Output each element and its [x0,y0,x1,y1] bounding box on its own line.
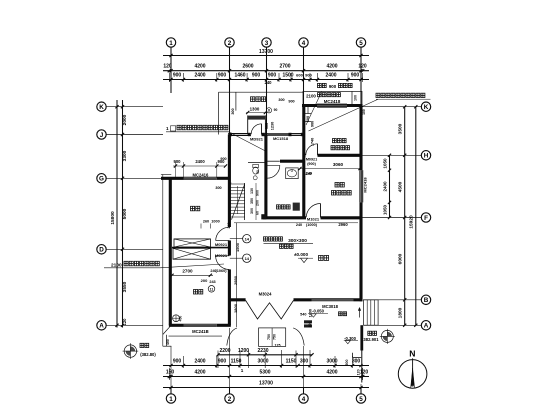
svg-text:1: 1 [166,126,169,131]
svg-text:2400: 2400 [325,73,336,79]
svg-text:150: 150 [166,369,175,375]
bottom-left eave corner miter [163,326,171,334]
wall on grid 2 full height with two door gaps [228,135,231,228]
svg-text:260: 260 [203,219,209,223]
svg-text:1050: 1050 [383,204,388,215]
wall on grid H kitchen divider with door M0921 [304,154,306,157]
wall on grid 4 from K down to F with door gap [302,107,305,218]
svg-text:300: 300 [250,208,254,214]
svg-text:14: 14 [245,256,250,261]
door MD921 leaf and arc [261,124,263,135]
wall on grid 3 from J to F [264,135,267,218]
svg-text:1230: 1230 [271,122,275,130]
bedroom south wall on grid A with window MC241B [169,324,184,327]
stair cut diagonal [232,184,245,219]
svg-text:D: D [99,247,104,254]
bottom total dim line 13700 [163,387,369,389]
svg-text:2230: 2230 [257,348,268,354]
svg-text:900: 900 [329,84,337,89]
svg-text:H: H [424,153,429,160]
flue second line [280,244,294,248]
svg-text:4500: 4500 [398,181,404,192]
svg-text:240: 240 [306,172,312,176]
svg-text:2100: 2100 [111,262,122,268]
svg-text:900: 900 [173,73,182,79]
right outer dim line 15920 [415,107,417,326]
svg-text:120: 120 [122,318,127,326]
east wall on grid 5 [359,104,362,170]
svg-text:3550: 3550 [122,281,128,292]
bottom grid bubbles and stems [166,394,175,403]
svg-text:A: A [99,323,104,330]
svg-text:1: 1 [241,368,244,373]
svg-text:300: 300 [352,359,361,365]
south eaves line below bedroom [169,335,223,337]
svg-text:1000: 1000 [211,219,219,223]
svg-text:900: 900 [311,121,315,127]
bathroom2 washbasin [286,168,299,179]
svg-text:MD921: MD921 [250,137,264,142]
svg-text:900: 900 [218,359,227,365]
svg-text:500: 500 [345,360,349,366]
east wall lower segment [359,202,362,301]
svg-text:750: 750 [267,334,271,340]
bath2 door arc [267,160,280,162]
boundary wall below A right [360,325,363,350]
svg-text:F: F [424,215,428,222]
svg-text:(1000): (1000) [306,223,318,227]
kitchen counter stub lines [304,113,311,115]
svg-text:200: 200 [256,200,260,206]
svg-text:3300: 3300 [122,150,128,161]
svg-text:120: 120 [357,369,361,375]
room label bedroom living [335,183,344,188]
svg-text:G: G [99,176,104,183]
svg-text:13700: 13700 [259,49,273,55]
svg-text:50: 50 [256,170,260,174]
svg-text:1200: 1200 [238,348,249,354]
svg-text:90: 90 [274,108,278,112]
bottom partial row extension lines [217,351,219,369]
svg-text:900: 900 [174,159,182,164]
svg-text:2100: 2100 [306,94,316,99]
svg-text:1150: 1150 [286,359,297,365]
svg-text:300: 300 [278,98,284,102]
svg-text:M1021: M1021 [307,217,320,222]
svg-text:M3024: M3024 [259,292,272,297]
svg-text:1050: 1050 [383,158,388,169]
right grid bubbles with leaders [421,102,430,111]
svg-text:4200: 4200 [326,64,337,70]
svg-text:2700: 2700 [182,268,193,273]
svg-text:8: 8 [268,109,270,113]
svg-text:1: 1 [169,40,173,47]
svg-text:5000: 5000 [122,208,128,219]
svg-text:15920: 15920 [409,215,415,229]
benchmark left with cross circle [124,345,136,357]
water counter top line [219,91,304,93]
top dimension line bays [163,70,369,72]
svg-text:450: 450 [179,316,183,322]
svg-text:120: 120 [163,64,172,70]
kitchen interior dim 3060 [300,168,360,170]
stair going-up arrow line [237,186,239,214]
bedroom door M0921 upper arc [216,227,230,240]
step label and arrow [339,312,347,316]
folding door M3024 zigzag [246,300,294,319]
corridor wall grid2 extension B to A [228,300,230,326]
svg-text:900: 900 [173,359,182,365]
living room label [319,256,329,261]
right inner window dim chain [389,155,391,217]
east wall window MC2418 vertical [359,170,361,202]
bathroom1 fixtures toilet [253,164,259,167]
svg-text:3060: 3060 [333,162,344,167]
top note reserved 900 door opening [318,83,327,87]
stairs between grid2 and grid3 [230,184,244,217]
svg-text:900: 900 [218,73,227,79]
svg-text:A: A [424,323,429,330]
svg-text:2000: 2000 [122,114,128,125]
svg-text:240: 240 [265,80,273,85]
right dim chain [404,107,406,326]
kitchen north wall on grid K with window MC2418 [302,104,362,107]
svg-text:5300: 5300 [259,369,270,375]
bedroom north wall on grid G with window MC2416 [161,177,184,180]
svg-text:2400: 2400 [195,159,205,164]
svg-text:1300: 1300 [250,107,260,112]
floor drain circle in bedroom [173,315,180,322]
svg-text:243: 243 [209,280,215,284]
bottom dim line bays [163,376,369,378]
svg-text:2400: 2400 [383,181,388,192]
bath north wall on grid J with door MD921 and window MC1518 [228,133,251,135]
callout circles living room [243,235,251,243]
svg-text:900: 900 [268,73,277,79]
svg-text:3000: 3000 [257,359,268,365]
svg-text:2950: 2950 [233,275,238,285]
svg-text:2600: 2600 [242,64,253,70]
tiny callout below toilet [253,176,257,180]
svg-text:13700: 13700 [259,381,273,387]
svg-text:4: 4 [302,40,306,47]
door M1021 arc at wall F [320,204,322,218]
stair dim texts [255,183,257,220]
svg-text:240: 240 [227,223,231,229]
svg-text:B: B [424,297,429,304]
svg-text:4200: 4200 [326,369,337,375]
svg-text:460: 460 [166,339,170,345]
svg-text:900: 900 [351,73,360,79]
lower bedroom label [194,290,203,295]
svg-text:K: K [99,104,104,111]
svg-text:750: 750 [273,334,277,340]
washroom label [277,205,291,209]
svg-text:M0921: M0921 [306,157,317,161]
svg-text:3000: 3000 [326,359,337,365]
svg-text:15800: 15800 [110,211,116,225]
bedroom window top dims [173,165,226,167]
pier dark marks near entry [304,320,312,327]
svg-text:2700: 2700 [279,64,290,70]
svg-text:540: 540 [300,312,306,316]
room label kitchen recreation [333,139,347,143]
top grid extension stems [170,47,172,93]
benchmark right with cross circle [381,330,393,342]
svg-text:125: 125 [275,344,281,348]
svg-text:120: 120 [358,64,367,70]
svg-text:900: 900 [288,100,294,104]
svg-text:600: 600 [296,73,303,78]
svg-text:6000: 6000 [398,253,404,264]
top dimension line details [163,79,369,81]
living room south wall on grid B with door M3024 and window MC3018 [229,298,245,301]
svg-text:(1060): (1060) [216,269,228,273]
washing machine dark box [293,203,300,211]
top note 2100 lintel boxed [303,91,362,104]
svg-text:-0.300: -0.300 [344,336,357,341]
west eave line [162,175,164,347]
entry steps right side [364,300,379,325]
top dim extension lines short [168,73,170,82]
svg-text:100: 100 [354,95,358,101]
svg-text:4200: 4200 [194,369,205,375]
svg-text:3500: 3500 [398,123,404,134]
svg-text:1800: 1800 [398,307,404,318]
svg-text:MC241B: MC241B [192,329,209,334]
bedroom interior dim 2700 [172,274,213,276]
front steps box below living room [259,328,286,347]
counter dim 1300 [246,112,267,114]
water counter label [251,97,266,102]
svg-text:14: 14 [245,237,250,242]
svg-text:900: 900 [252,73,261,79]
svg-text:5: 5 [359,40,363,47]
left dim chain [122,100,124,328]
svg-text:900: 900 [305,73,312,78]
svg-text:1: 1 [169,396,173,403]
top dimension line total 13700 [163,55,369,57]
svg-text:1800: 1800 [233,303,238,313]
svg-text:3: 3 [265,40,269,47]
svg-text:240: 240 [296,223,302,227]
svg-text:1500: 1500 [235,242,240,252]
svg-text:MC2418: MC2418 [363,177,368,193]
svg-text:11: 11 [210,287,214,291]
svg-text:2: 2 [228,396,232,403]
stub wall left of stairs [229,182,231,184]
svg-text:350: 350 [250,198,254,204]
bottom partial dim line 2200 1200 2230 [218,354,312,356]
svg-text:1740: 1740 [311,138,315,146]
left outer dim line 15800 [116,100,118,328]
svg-text:±0.000: ±0.000 [294,252,308,257]
svg-text:300: 300 [231,108,235,114]
svg-text:382.901: 382.901 [363,337,379,342]
svg-text:900: 900 [256,190,260,196]
bottom dim line details [163,365,369,367]
upper bedroom label [191,206,200,211]
concrete counter jambs above door [247,115,249,134]
bottom dim extension lines [168,368,170,380]
svg-text:2200: 2200 [219,348,230,354]
svg-text:2400: 2400 [194,73,205,79]
svg-text:J: J [100,132,104,139]
wardrobe X box upper [174,239,211,247]
svg-text:M0921: M0921 [215,253,228,258]
bath2 north wall with door gap [266,160,267,163]
svg-text:MC2418: MC2418 [324,99,341,104]
svg-text:MC3018: MC3018 [322,304,338,309]
svg-text:4200: 4200 [194,64,205,70]
svg-text:-0.050: -0.050 [312,308,325,313]
wardrobe X box lower [173,248,211,259]
left grid bubbles with leaders [97,102,106,111]
svg-text:MC2416: MC2416 [192,172,208,177]
svg-text:(900): (900) [307,162,316,166]
bedroom door M0921 lower arc [216,256,230,270]
svg-text:900: 900 [218,159,226,164]
svg-text:100: 100 [362,109,366,115]
svg-text:N: N [409,349,415,359]
kitchen door M0921 leaf and arc [317,144,319,156]
north compass [398,360,427,389]
svg-text:MC1518: MC1518 [273,136,289,141]
svg-text:200: 200 [201,278,208,283]
svg-text:1460: 1460 [234,73,245,79]
svg-text:130: 130 [250,188,254,194]
curved wing walls beside front steps [227,328,237,346]
svg-text:K: K [424,104,429,111]
svg-text:2400: 2400 [194,359,205,365]
svg-text:300: 300 [300,359,309,365]
svg-text:120: 120 [360,369,369,375]
interior bedroom dividing wall and wardrobes [172,247,229,249]
svg-text:M0921: M0921 [215,242,228,247]
top grid bubbles and stems [166,38,175,47]
wall on grid F living room north with door M1021 [263,216,306,219]
bedroom west wall [169,178,172,325]
svg-text:2: 2 [228,40,232,47]
svg-text:300: 300 [215,186,221,190]
svg-text:60: 60 [256,211,260,215]
flue text 300x300 underlined [264,237,283,241]
svg-text:4: 4 [302,396,306,403]
svg-text:900: 900 [265,123,269,129]
svg-text:(382.80): (382.80) [140,352,156,357]
top right note kitchen window [376,93,425,97]
column at wall3 x F [261,214,266,219]
svg-text:100: 100 [308,322,312,328]
svg-text:5: 5 [359,396,363,403]
svg-text:1500: 1500 [282,73,293,79]
